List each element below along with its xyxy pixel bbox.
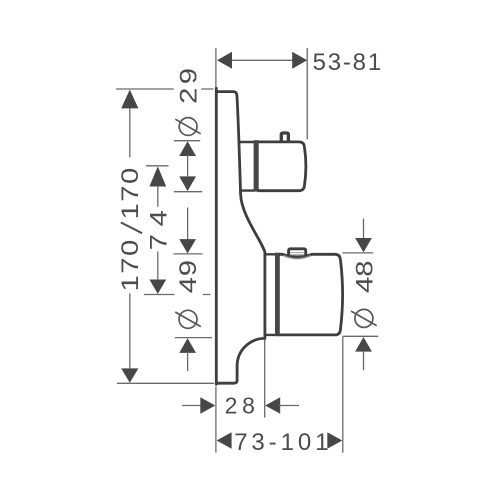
dim 28: left lead line xyxy=(182,405,202,407)
dim Ø29: bottom tick xyxy=(174,191,203,193)
svg-text:29: 29 xyxy=(175,64,202,103)
dim 73-101: right extension line xyxy=(342,337,344,453)
dim 53-81: right extension line xyxy=(306,48,308,139)
dim Ø29: dimension line xyxy=(187,155,189,178)
dim 170/170: top tick xyxy=(116,88,214,90)
dim 74: dimension line segments xyxy=(157,186,159,280)
dim 28: right extension line xyxy=(264,340,266,418)
dim 28: right arrow xyxy=(265,397,280,414)
dim Ø29: down arrow xyxy=(179,176,196,191)
svg-text:48: 48 xyxy=(351,260,378,293)
dim Ø49: lower dimension line xyxy=(187,352,189,371)
lower handle body xyxy=(280,254,343,335)
dim 74: bottom tick xyxy=(144,294,211,296)
escutcheon plate profile xyxy=(216,92,265,384)
svg-text:170: 170 xyxy=(117,166,144,219)
dim Ø48: top tick xyxy=(343,252,374,254)
dim 170/170: dimension line segments xyxy=(129,108,131,369)
svg-text:73-101: 73-101 xyxy=(234,429,332,456)
svg-text:28: 28 xyxy=(225,392,260,418)
lower sleeve bottom edge xyxy=(265,334,277,336)
lower handle tab inner line xyxy=(290,253,304,255)
dim Ø48: label diameter symbol xyxy=(351,309,377,327)
dim 53-81: left extension line xyxy=(215,48,217,87)
dim 28: right lead line xyxy=(279,405,299,407)
dim Ø49: bottom tick xyxy=(175,337,212,339)
dim 170/170: down arrow xyxy=(121,368,138,382)
dim Ø49: label diameter symbol xyxy=(175,310,201,328)
dim 53-81: right arrow xyxy=(292,52,307,69)
dim Ø48: upper dimension line xyxy=(363,219,365,239)
dim Ø29: up arrow xyxy=(179,141,196,156)
dim 73-101: right arrow xyxy=(327,432,342,449)
dim 73-101: left arrow xyxy=(217,432,232,449)
dim Ø49: top tick xyxy=(174,253,203,255)
wall line xyxy=(215,88,218,384)
top handle tab xyxy=(281,133,288,141)
top sleeve lines xyxy=(239,142,253,191)
dim Ø48: bottom tick xyxy=(343,335,379,337)
dim Ø48: up arrow xyxy=(355,337,372,352)
svg-text:53-81: 53-81 xyxy=(313,49,383,76)
dim 28: left arrow xyxy=(200,397,215,414)
svg-text:170: 170 xyxy=(117,238,144,291)
dim 74: down arrow xyxy=(149,280,166,294)
dim 74: top tick xyxy=(146,165,169,167)
dim 170/170: bottom tick xyxy=(117,382,214,384)
svg-text:49: 49 xyxy=(174,259,201,293)
lower handle notch arc xyxy=(284,256,311,259)
wall extension line below plate xyxy=(215,386,217,452)
dim Ø48: lower dimension line xyxy=(363,351,365,370)
dim Ø48: down arrow xyxy=(355,238,372,252)
dim Ø49: upper dimension line xyxy=(187,208,189,240)
lower handle left edge bar xyxy=(275,253,280,337)
top handle left edge bar xyxy=(254,140,259,191)
dim Ø29: top tick xyxy=(174,140,200,142)
svg-text:74: 74 xyxy=(145,203,172,251)
dim 74: up arrow xyxy=(149,166,166,186)
dim 170/170: label slash xyxy=(121,222,142,233)
dim 170/170: up arrow xyxy=(121,90,138,109)
lower handle tab xyxy=(289,249,306,256)
top handle body xyxy=(259,142,306,191)
dim Ø29: label diameter symbol xyxy=(175,118,200,136)
dim 53-81: dimension line xyxy=(232,59,293,61)
dim Ø49: down arrow xyxy=(179,239,196,253)
dim 53-81: left arrow xyxy=(217,52,232,69)
lower sleeve top edge xyxy=(265,253,282,255)
dim Ø49: up arrow xyxy=(179,338,196,353)
